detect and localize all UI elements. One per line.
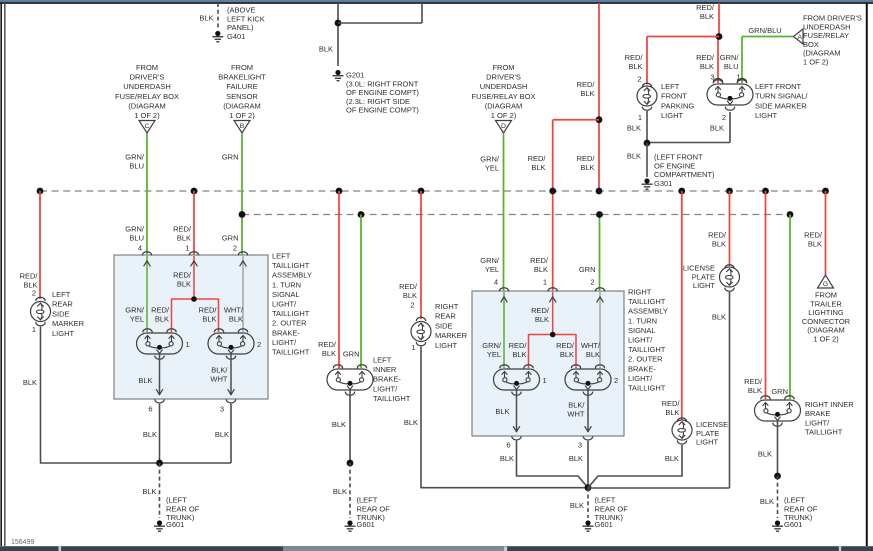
svg-text:BLK: BLK [215, 430, 229, 439]
svg-text:REAR OF: REAR OF [166, 504, 200, 513]
svg-text:BLK: BLK [138, 376, 152, 385]
svg-text:RED/: RED/ [708, 231, 727, 240]
svg-text:COMPARTMENT): COMPARTMENT) [654, 170, 715, 179]
svg-text:SENSOR: SENSOR [226, 92, 258, 101]
pin hat left box x=243 [238, 252, 247, 256]
svg-text:LEFT: LEFT [373, 356, 392, 365]
svg-text:UNDERDASH: UNDERDASH [803, 22, 851, 31]
terminal cup right marker [416, 342, 425, 346]
pin cup left box pin6 [155, 399, 164, 403]
svg-text:BRAKE-: BRAKE- [272, 328, 300, 337]
svg-text:FUSE/RELAY BOX: FUSE/RELAY BOX [115, 92, 179, 101]
svg-text:BLK: BLK [586, 350, 600, 359]
svg-text:(2.3L: RIGHT SIDE: (2.3L: RIGHT SIDE [346, 97, 410, 106]
lower bus junction at x=599.5 [596, 211, 603, 218]
wire BLK pin3 right down [587, 441, 589, 488]
svg-text:1: 1 [32, 325, 36, 334]
svg-text:G601: G601 [357, 520, 375, 529]
svg-text:TAILLIGHT: TAILLIGHT [272, 309, 310, 318]
svg-text:LICENSE: LICENSE [683, 264, 715, 273]
svg-text:BLK: BLK [710, 124, 724, 133]
svg-text:BLK: BLK [535, 315, 549, 324]
svg-text:RED/: RED/ [530, 256, 549, 265]
dashed connector bus lower [242, 214, 790, 216]
svg-text:LIGHTING: LIGHTING [808, 308, 844, 317]
terminal hat turn signal pin 1 [737, 78, 746, 82]
wire BLK right inner down [777, 420, 779, 476]
svg-text:GRN/: GRN/ [720, 53, 740, 62]
svg-text:2: 2 [590, 278, 594, 287]
pin hat right box x=600 [595, 288, 604, 292]
svg-text:1 OF 2): 1 OF 2) [134, 111, 160, 120]
junction left G601 [156, 460, 163, 467]
svg-text:REAR OF: REAR OF [784, 504, 818, 513]
wire BLK dashed to G601 left [159, 463, 161, 518]
svg-text:2. OUTER: 2. OUTER [628, 355, 663, 364]
svg-text:RED/: RED/ [744, 377, 763, 386]
right frame line [866, 3, 868, 546]
svg-text:BLK: BLK [177, 280, 191, 289]
svg-text:TURN SIGNAL/: TURN SIGNAL/ [755, 92, 808, 101]
svg-text:TAILLIGHT: TAILLIGHT [805, 428, 843, 437]
svg-text:YEL: YEL [485, 265, 499, 274]
svg-text:G601: G601 [784, 520, 802, 529]
ground G601 (right inner) [772, 520, 783, 531]
svg-text:BLK/: BLK/ [568, 401, 585, 410]
bus junction at x=825.5 [822, 188, 829, 195]
svg-text:FROM: FROM [815, 291, 837, 300]
wire RED/BLK bus to trailer connector [825, 191, 827, 275]
terminal cup lower license [677, 440, 686, 444]
top window strip [0, 0, 873, 2]
junction BLK at (647,143) [644, 140, 651, 147]
wire GRN lower bus to right inner brake light [789, 215, 791, 400]
svg-text:YEL: YEL [485, 164, 499, 173]
svg-text:4: 4 [494, 278, 498, 287]
svg-text:D: D [501, 123, 506, 130]
bulb 1 right taillight [494, 369, 540, 390]
svg-text:1. TURN: 1. TURN [628, 316, 657, 325]
wire BLK dashed right G601 [587, 488, 589, 518]
svg-text:(DIAGRAM: (DIAGRAM [128, 101, 166, 110]
svg-text:PARKING: PARKING [661, 101, 694, 110]
connector B [234, 121, 250, 134]
terminal hat right marker [416, 317, 425, 321]
svg-text:G601: G601 [166, 520, 184, 529]
bus junction at x=552.7 [549, 188, 556, 195]
wire RED/BLK from top to bus [598, 3, 600, 191]
svg-text:1: 1 [185, 244, 189, 253]
bulb 2 left taillight (outer brake/taillight) [208, 333, 254, 354]
svg-text:RED/: RED/ [20, 272, 39, 281]
connector D [496, 121, 512, 134]
svg-text:6: 6 [148, 405, 152, 414]
svg-text:RED/: RED/ [199, 306, 218, 315]
ground G601 (right taillight) [583, 520, 594, 531]
svg-text:BLK: BLK [495, 407, 509, 416]
wire BLK junction horizontal [647, 142, 730, 144]
svg-text:BLK: BLK [700, 62, 714, 71]
svg-text:RIGHT: RIGHT [435, 302, 459, 311]
wire RED/BLK bus to right inner brake light [765, 191, 767, 399]
svg-text:OF ENGINE COMPT): OF ENGINE COMPT) [346, 106, 419, 115]
wire RED/BLK down to turn signal pin 3 [717, 37, 719, 84]
wire BLK from top to G201 [337, 3, 339, 66]
svg-text:FROM: FROM [231, 63, 253, 72]
wire BLK horizontal to right G601 junction [588, 487, 730, 489]
wire BLK bulb1 right down [516, 389, 518, 432]
svg-text:RED/: RED/ [577, 80, 596, 89]
svg-text:FRONT: FRONT [661, 92, 687, 101]
svg-text:SIDE: SIDE [52, 309, 70, 318]
svg-text:C: C [145, 123, 150, 130]
svg-text:LIGHT: LIGHT [696, 438, 719, 447]
junction at (338,23) [335, 20, 342, 27]
bus junction at x=599 [596, 188, 603, 195]
terminal hat parking light [642, 83, 651, 87]
bus junction at x=339 [336, 188, 343, 195]
svg-text:2. OUTER: 2. OUTER [272, 319, 307, 328]
svg-text:2: 2 [614, 376, 618, 385]
junction red split left box [191, 296, 197, 302]
svg-text:DRIVER'S: DRIVER'S [486, 73, 521, 82]
wire RED/BLK bus to left rear side marker [39, 191, 41, 299]
bottom scrollbar [0, 546, 873, 551]
svg-text:3: 3 [220, 405, 224, 414]
wire GRN from B to left taillight pin 2 [241, 133, 243, 255]
svg-text:TAILLIGHT: TAILLIGHT [628, 297, 666, 306]
svg-text:BLK: BLK [142, 487, 156, 496]
left frame lines [0, 3, 2, 546]
svg-text:B: B [240, 123, 245, 130]
svg-text:FUSE/RELAY: FUSE/RELAY [803, 31, 849, 40]
bulb right rear side marker light [411, 322, 431, 342]
svg-text:REAR: REAR [435, 312, 456, 321]
lower bus junction at x=242 [239, 211, 246, 218]
svg-text:REAR: REAR [52, 300, 73, 309]
svg-text:BLK: BLK [748, 386, 762, 395]
svg-text:(DIAGRAM: (DIAGRAM [807, 326, 845, 335]
bulb left inner brake-light/taillight [327, 369, 373, 390]
svg-text:BLK: BLK [531, 163, 545, 172]
wire BLK dashed to G401 [217, 3, 219, 29]
svg-text:LEFT FRONT: LEFT FRONT [755, 82, 802, 91]
svg-text:BLK: BLK [333, 487, 347, 496]
svg-text:WHT/: WHT/ [581, 341, 601, 350]
svg-text:YEL: YEL [487, 350, 501, 359]
svg-text:WHT: WHT [567, 410, 584, 419]
svg-text:ASSEMBLY: ASSEMBLY [628, 307, 668, 316]
svg-text:BLU: BLU [129, 234, 144, 243]
wire red split arms right box [529, 335, 577, 369]
svg-text:(LEFT FRONT: (LEFT FRONT [654, 153, 703, 162]
ground G301 [642, 178, 653, 189]
wire BLK/WHT bulb2 right down [587, 389, 589, 432]
svg-text:RED/: RED/ [577, 154, 596, 163]
svg-text:LIGHT/: LIGHT/ [628, 336, 653, 345]
svg-text:(LEFT: (LEFT [784, 496, 805, 505]
bus junction at x=681.8 [678, 188, 685, 195]
svg-text:BRAKE-: BRAKE- [628, 364, 656, 373]
svg-text:BLK: BLK [758, 450, 772, 459]
wire RED/BLK inside right box [552, 292, 554, 335]
wire BLK lower license to junction [588, 445, 682, 488]
svg-text:PLATE: PLATE [696, 429, 719, 438]
svg-text:ASSEMBLY: ASSEMBLY [272, 271, 312, 280]
svg-text:OF ENGINE: OF ENGINE [654, 161, 695, 170]
pin cup right box pin6 [512, 436, 521, 440]
bulb 2 right taillight [565, 369, 611, 390]
svg-text:BLK: BLK [177, 234, 191, 243]
svg-text:UNDERDASH: UNDERDASH [480, 82, 528, 91]
svg-text:GRN/: GRN/ [480, 256, 500, 265]
pin cup right box pin3 [583, 436, 592, 440]
svg-text:BLK: BLK [199, 14, 213, 23]
svg-text:BLK: BLK [23, 378, 37, 387]
svg-text:BLK: BLK [580, 163, 594, 172]
connector A [794, 29, 804, 44]
svg-text:RED/: RED/ [556, 341, 575, 350]
wire up to top edge [421, 3, 423, 23]
svg-text:GRN/: GRN/ [125, 225, 145, 234]
svg-text:TAILLIGHT: TAILLIGHT [628, 384, 666, 393]
wire WHT/BLK inside right box [599, 292, 601, 368]
wire RED/BLK bus to left inner brake light [338, 191, 340, 368]
wire RED/BLK from top to junction [718, 3, 720, 37]
bus junction at x=40 [37, 188, 44, 195]
svg-text:RED/: RED/ [173, 225, 192, 234]
wire RED/BLK bus to left taillight pin 1 [193, 191, 195, 255]
svg-text:BRAKELIGHT: BRAKELIGHT [218, 73, 266, 82]
wire RED/BLK bus to lower license plate light [681, 191, 683, 420]
pin hat left box x=147 [142, 252, 151, 256]
svg-text:GRN: GRN [222, 234, 239, 243]
pin cup left box pin3 [226, 399, 235, 403]
svg-text:(LEFT: (LEFT [595, 496, 616, 505]
svg-text:LIGHT/: LIGHT/ [373, 384, 398, 393]
terminal hat lower license [677, 418, 686, 422]
svg-text:WHT: WHT [210, 375, 227, 384]
svg-text:RED/: RED/ [173, 271, 192, 280]
pin hat right box x=552.7 [548, 288, 557, 292]
svg-text:BLK: BLK [808, 240, 822, 249]
svg-text:LIGHT: LIGHT [661, 111, 684, 120]
svg-text:1 OF 2): 1 OF 2) [229, 111, 255, 120]
pin hat left box x=194 [189, 252, 198, 256]
ground G601 (left inner) [345, 520, 356, 531]
svg-text:1 OF 2): 1 OF 2) [813, 335, 839, 344]
svg-text:PLATE: PLATE [692, 272, 715, 281]
svg-text:RED/: RED/ [151, 306, 170, 315]
svg-text:RED/: RED/ [528, 154, 547, 163]
svg-text:RED/: RED/ [696, 3, 715, 12]
svg-text:A: A [798, 34, 803, 41]
pin hat right box x=504 [499, 288, 508, 292]
svg-text:4: 4 [138, 244, 142, 253]
svg-text:3: 3 [578, 441, 582, 450]
wire red down to parking light pin 2 [646, 37, 648, 85]
svg-text:1: 1 [411, 343, 415, 352]
svg-text:GRN: GRN [771, 387, 788, 396]
svg-text:LIGHT/: LIGHT/ [628, 374, 653, 383]
svg-text:FROM: FROM [136, 63, 158, 72]
svg-text:BLK: BLK [143, 430, 157, 439]
bulb left front parking light [637, 86, 657, 106]
svg-text:LIGHT: LIGHT [52, 329, 75, 338]
bus junction at x=194 [191, 188, 198, 195]
wire RED/BLK bus to right rear side marker [420, 191, 422, 319]
svg-text:2: 2 [722, 113, 726, 122]
svg-text:OF ENGINE COMPT): OF ENGINE COMPT) [346, 88, 419, 97]
svg-text:LEFT: LEFT [52, 290, 71, 299]
svg-text:DRIVER'S: DRIVER'S [130, 73, 165, 82]
wire BLK right marker to G601 junction [421, 347, 588, 488]
svg-text:RIGHT INNER: RIGHT INNER [805, 400, 854, 409]
svg-text:SIGNAL: SIGNAL [272, 290, 300, 299]
svg-text:1: 1 [638, 113, 642, 122]
svg-text:INNER: INNER [373, 365, 397, 374]
svg-text:BLK: BLK [404, 418, 418, 427]
ground G401 [212, 31, 223, 42]
svg-text:CONNECTOR: CONNECTOR [802, 317, 851, 326]
wire BLK/WHT bulb2 to pin 3 [230, 353, 232, 395]
svg-text:2: 2 [637, 75, 641, 84]
svg-text:BLU: BLU [129, 162, 144, 171]
svg-text:TAILLIGHT: TAILLIGHT [628, 345, 666, 354]
svg-text:1 OF 2): 1 OF 2) [491, 111, 517, 120]
wire BLK pin6 right down [517, 441, 589, 488]
wire GRN lower bus to left inner brake light [360, 215, 362, 369]
svg-text:RED/: RED/ [399, 282, 418, 291]
wire GRN/YEL inside to bulb1 left [146, 256, 148, 332]
svg-text:1: 1 [543, 278, 547, 287]
svg-text:LIGHT/: LIGHT/ [272, 300, 297, 309]
svg-text:TAILLIGHT: TAILLIGHT [373, 394, 411, 403]
svg-text:BLK: BLK [560, 350, 574, 359]
svg-text:BRAKE: BRAKE [805, 409, 830, 418]
svg-text:TRAILER: TRAILER [810, 299, 842, 308]
left taillight assembly box [114, 255, 268, 399]
svg-text:MARKER: MARKER [52, 319, 85, 328]
svg-text:BLK: BLK [580, 89, 594, 98]
svg-text:LICENSE: LICENSE [696, 420, 728, 429]
connector G [818, 275, 834, 288]
svg-text:BLK: BLK [512, 350, 526, 359]
svg-text:LIGHT/: LIGHT/ [805, 418, 830, 427]
svg-text:FROM: FROM [492, 63, 514, 72]
svg-text:BLK: BLK [229, 315, 243, 324]
svg-text:1 OF 2): 1 OF 2) [803, 58, 829, 67]
svg-text:BLK: BLK [155, 315, 169, 324]
bus junction at x=765.5 [762, 188, 769, 195]
dashed connector bus upper [40, 190, 826, 192]
svg-text:G201: G201 [346, 71, 364, 80]
wire BLK left marker to G601 junction [41, 327, 232, 463]
svg-text:GRN/: GRN/ [125, 153, 145, 162]
svg-text:SIGNAL: SIGNAL [628, 326, 656, 335]
svg-text:YEL: YEL [130, 315, 144, 324]
bus junction at x=421 [418, 188, 425, 195]
ground G201 [333, 70, 344, 81]
wire red split arms to bulbs [172, 299, 219, 332]
svg-text:BLK: BLK [712, 313, 726, 322]
bulb license plate light upper [720, 267, 740, 287]
svg-text:FAILURE: FAILURE [226, 82, 257, 91]
svg-text:156499: 156499 [11, 539, 34, 546]
junction left inner G601 [347, 460, 354, 467]
svg-text:G301: G301 [654, 179, 672, 188]
svg-text:BOX: BOX [803, 40, 819, 49]
svg-text:RED/: RED/ [662, 399, 681, 408]
wire BLK dashed left inner [349, 463, 351, 518]
svg-text:SIDE: SIDE [435, 321, 453, 330]
wire GRN/BLU down to turn signal pin 1 [741, 37, 743, 84]
svg-text:1: 1 [186, 340, 190, 349]
svg-text:RED/: RED/ [625, 53, 644, 62]
junction right inner G601 [774, 473, 781, 480]
svg-text:TAILLIGHT: TAILLIGHT [272, 261, 310, 270]
ground G601 (left taillight) [154, 520, 165, 531]
svg-text:G401: G401 [227, 32, 245, 41]
svg-text:LIGHT: LIGHT [755, 111, 778, 120]
svg-text:(ABOVE: (ABOVE [227, 6, 255, 15]
svg-text:BLK/: BLK/ [211, 366, 228, 375]
svg-text:BLK: BLK [500, 454, 514, 463]
terminal hat turn signal pin 3 [713, 78, 722, 82]
svg-text:LIGHT: LIGHT [693, 281, 716, 290]
svg-text:BLK: BLK [332, 420, 346, 429]
svg-text:WHT/: WHT/ [224, 306, 244, 315]
svg-text:RIGHT: RIGHT [628, 288, 652, 297]
svg-text:(3.0L: RIGHT FRONT: (3.0L: RIGHT FRONT [346, 79, 419, 88]
bulb right inner brake light/taillight [755, 400, 801, 421]
svg-text:TAILLIGHT: TAILLIGHT [272, 348, 310, 357]
svg-text:BLK: BLK [322, 349, 336, 358]
svg-text:RED/: RED/ [509, 341, 528, 350]
svg-text:BLK: BLK [665, 454, 679, 463]
wire BLK turn signal down [729, 112, 731, 143]
svg-text:(DIAGRAM: (DIAGRAM [485, 101, 523, 110]
svg-text:BLK: BLK [534, 265, 548, 274]
terminal hat upper license [725, 265, 734, 269]
wire red split horizontal [553, 119, 599, 121]
terminal cup left marker [36, 322, 45, 326]
svg-text:LIGHT/: LIGHT/ [272, 338, 297, 347]
svg-text:PANEL): PANEL) [227, 23, 254, 32]
svg-text:UNDERDASH: UNDERDASH [123, 82, 171, 91]
wire RED/BLK branch down to bus [552, 120, 554, 191]
connector C [139, 121, 155, 134]
svg-text:RED/: RED/ [696, 53, 715, 62]
svg-text:BLK: BLK [700, 12, 714, 21]
svg-text:2: 2 [233, 244, 237, 253]
svg-text:GRN/BLU: GRN/BLU [748, 26, 781, 35]
svg-text:BLU: BLU [724, 62, 739, 71]
svg-text:BLK: BLK [760, 497, 774, 506]
svg-text:BLK: BLK [570, 501, 584, 510]
wire BLK left inner down [349, 389, 351, 463]
svg-text:REAR OF: REAR OF [357, 504, 391, 513]
bulb 1 left taillight (turn signal/taillight) [137, 333, 183, 354]
wire jumper to x=422 [338, 22, 422, 24]
svg-text:2: 2 [410, 301, 414, 310]
svg-text:1. TURN: 1. TURN [272, 280, 301, 289]
svg-text:BLK: BLK [627, 152, 641, 161]
svg-text:BLK: BLK [202, 315, 216, 324]
bulb left front turn signal/side marker [707, 84, 753, 105]
svg-text:REAR OF: REAR OF [595, 504, 629, 513]
svg-text:BLK: BLK [569, 454, 583, 463]
